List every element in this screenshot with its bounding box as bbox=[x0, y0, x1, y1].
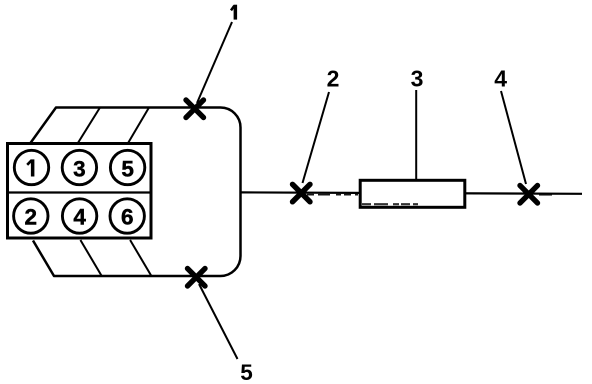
X mark 5 bbox=[188, 269, 206, 287]
cylinder head rectangle bbox=[8, 144, 152, 239]
leader line 2 bbox=[303, 92, 330, 183]
component box 3 bbox=[360, 180, 465, 207]
cylinder 4 circle bbox=[62, 199, 96, 233]
cylinder 5 circle bbox=[110, 150, 144, 184]
label 1 bbox=[231, 5, 237, 20]
wire top diagonal C bbox=[128, 108, 149, 144]
cylinder 2 circle bbox=[14, 199, 48, 233]
svg-text:4: 4 bbox=[73, 204, 86, 229]
divider line bbox=[6, 191, 152, 193]
svg-text:3: 3 bbox=[411, 66, 424, 92]
svg-text:3: 3 bbox=[73, 157, 86, 182]
svg-text:5: 5 bbox=[240, 360, 253, 384]
svg-text:2: 2 bbox=[327, 66, 340, 92]
cylinder 1 circle bbox=[14, 150, 48, 184]
cylinder 3 circle bbox=[62, 150, 96, 184]
leader line 4 bbox=[501, 91, 526, 184]
wire noise dash right of X4 bbox=[539, 194, 552, 196]
leader line 1 bbox=[197, 22, 232, 103]
wire main horizontal line bbox=[241, 192, 582, 193]
wire bottom diagonal B bbox=[80, 240, 101, 276]
wire top diagonal B bbox=[78, 108, 101, 144]
X mark 1 bbox=[186, 100, 204, 118]
engine block outline bbox=[30, 108, 241, 277]
svg-text:2: 2 bbox=[25, 204, 38, 229]
leader line 5 bbox=[199, 284, 238, 359]
svg-text:6: 6 bbox=[121, 204, 134, 229]
svg-text:5: 5 bbox=[121, 157, 134, 182]
wire noise dashes left of box bbox=[307, 194, 358, 196]
wire noise streak inside box 3 bbox=[362, 203, 418, 205]
leader line 3 bbox=[415, 90, 417, 180]
X mark 4 bbox=[520, 186, 538, 204]
X mark 2 bbox=[293, 184, 311, 202]
wire bottom diagonal C bbox=[130, 240, 151, 276]
cylinder 6 circle bbox=[110, 199, 144, 233]
svg-text:4: 4 bbox=[494, 66, 507, 92]
